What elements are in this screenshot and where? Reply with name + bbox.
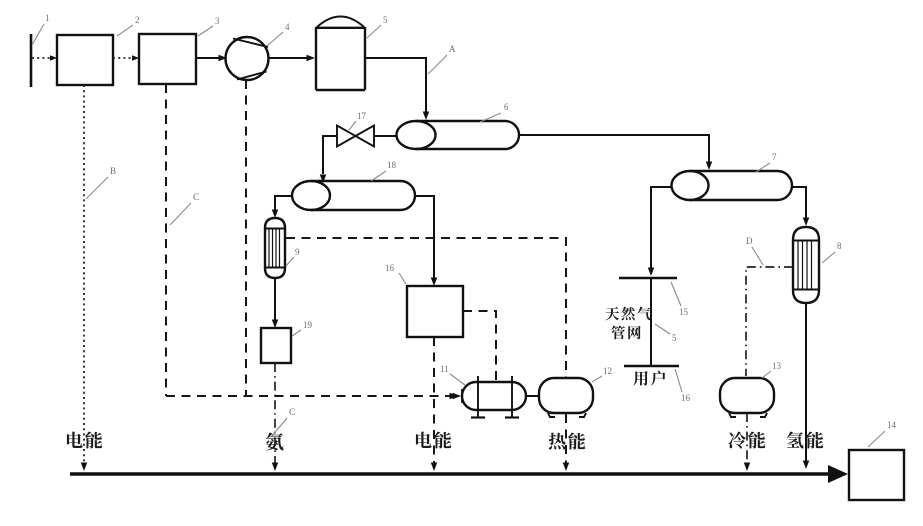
wire tank18 to box16: [415, 196, 434, 280]
wire box3 to compressor4: [196, 57, 221, 59]
svg-text:4: 4: [285, 22, 290, 32]
svg-text:16: 16: [681, 393, 691, 403]
svg-text:C: C: [193, 192, 199, 202]
label ammonia: [266, 433, 284, 451]
compressor 4: [226, 37, 269, 80]
gas grid bar 15: [619, 277, 677, 280]
wire vessel5 to capsule6 (stream A): [365, 58, 426, 114]
node 1 input bus bar: [30, 34, 33, 87]
wire compressor4 down (dashed): [245, 80, 247, 396]
wire tank18 to exchanger9: [275, 196, 293, 212]
heat exchanger 11 (horizontal with saddles): [462, 382, 526, 410]
svg-text:12: 12: [603, 366, 612, 376]
heat exchanger 8: [793, 227, 819, 303]
wire box16 bottom to bus (dashed, electric): [433, 337, 435, 464]
svg-text:1: 1: [45, 13, 50, 23]
box 2: [57, 35, 113, 85]
box 19: [261, 328, 291, 363]
svg-text:B: B: [110, 166, 116, 176]
label electric energy 2: [416, 432, 451, 449]
label natural gas grid: [605, 307, 651, 321]
wire box2 to box3 (dotted): [113, 57, 133, 59]
wire box3 down (dashed): [165, 84, 167, 396]
vessel 5 (dome-top tank): [316, 27, 365, 90]
label electric energy 1: [67, 432, 102, 449]
box 14: [849, 450, 904, 500]
svg-text:18: 18: [387, 160, 397, 170]
label heat energy: [549, 433, 586, 450]
svg-text:13: 13: [772, 361, 782, 371]
tank 13: [720, 378, 774, 413]
svg-text:A: A: [449, 44, 456, 54]
wire tank7 to gas grid: [651, 187, 672, 269]
svg-text:19: 19: [303, 320, 313, 330]
label cold energy: [728, 431, 765, 448]
tank 7 (horizontal cylinder): [690, 171, 792, 200]
svg-text:6: 6: [504, 102, 509, 112]
wire grid to users: [650, 278, 652, 366]
wire tank7 to exchanger8: [792, 187, 806, 220]
wire exchanger9 to box19: [274, 278, 276, 322]
tank 12: [539, 378, 593, 413]
wire capsule6 to valve: [374, 135, 397, 137]
svg-text:9: 9: [295, 247, 300, 257]
wire tank13 to bus (dash-dot cold): [746, 413, 748, 464]
wire compressor4 to vessel5: [269, 57, 310, 59]
svg-text:7: 7: [772, 152, 777, 162]
svg-text:17: 17: [357, 111, 367, 121]
wire exchanger8 to bus (hydrogen): [805, 303, 807, 462]
svg-text:D: D: [746, 236, 753, 246]
box 3: [139, 34, 196, 84]
svg-text:5: 5: [672, 333, 677, 343]
wire exchanger9 to tank12 (dashed heat): [286, 238, 566, 377]
dashed electric net y=396: [166, 395, 450, 397]
wire box16 right to exchanger11 (dashed): [463, 311, 496, 380]
svg-text:3: 3: [215, 16, 220, 26]
svg-text:16: 16: [385, 263, 395, 273]
wire exchanger11 to tank12: [526, 395, 539, 397]
svg-text:C: C: [289, 407, 295, 417]
tank 6 (horizontal cylinder): [416, 121, 519, 149]
svg-text:15: 15: [679, 307, 689, 317]
box 16: [407, 286, 463, 337]
svg-text:5: 5: [383, 15, 388, 25]
wire box19 to bus (ammonia, dash-dot): [274, 363, 276, 464]
wire exchanger8 to tank13 (dash-dot cold): [746, 267, 793, 376]
svg-text:14: 14: [887, 420, 897, 430]
wire bar1 to box2 (dotted): [32, 57, 52, 59]
svg-text:2: 2: [135, 15, 140, 25]
heat exchanger 9: [265, 218, 285, 278]
valve 17: [337, 126, 374, 147]
energy bus: [70, 472, 830, 476]
svg-text:8: 8: [837, 241, 842, 251]
users bar 16: [624, 365, 679, 368]
tank 18 (horizontal cylinder): [311, 181, 415, 210]
wire box2 to bus (dotted electric): [83, 85, 85, 464]
wire capsule6 to capsule7: [519, 135, 709, 164]
svg-text:11: 11: [440, 364, 449, 374]
label hydrogen energy: [787, 432, 824, 449]
wire valve to tank18: [323, 136, 337, 174]
